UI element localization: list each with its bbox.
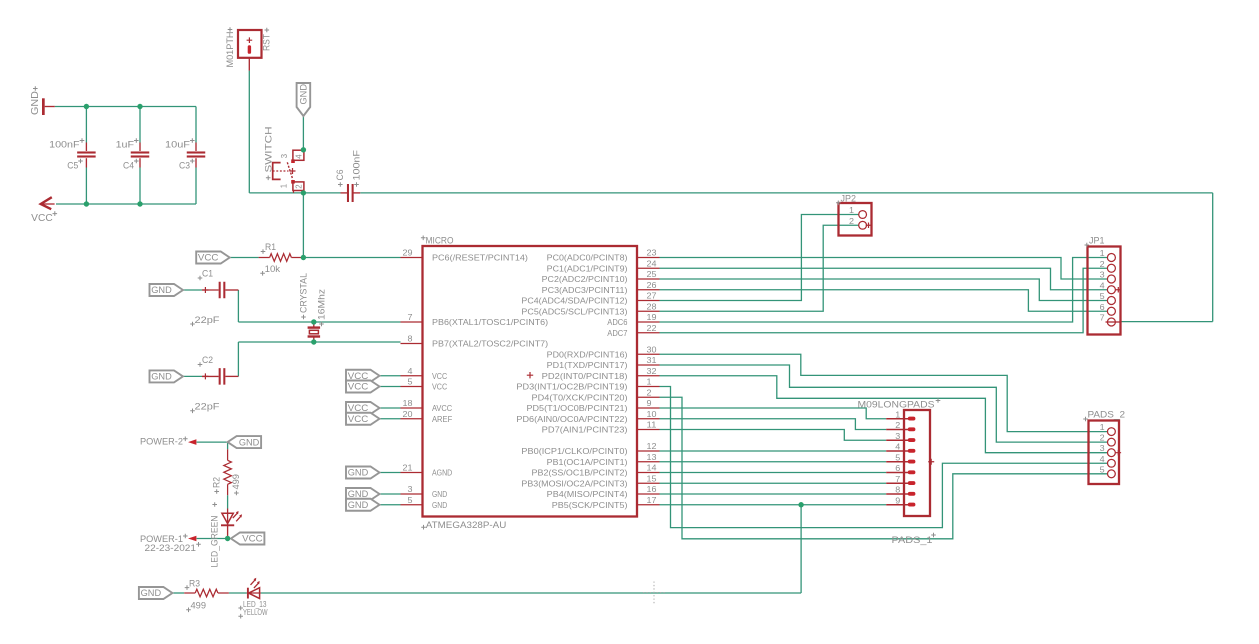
svg-text:VCC: VCC [31,213,53,224]
svg-text:GND: GND [432,489,447,499]
svg-text:4: 4 [1100,280,1105,290]
svg-text:30: 30 [647,344,657,354]
svg-text:PD2(INT0/PCINT18): PD2(INT0/PCINT18) [542,371,628,381]
svg-text:29: 29 [403,248,413,258]
svg-text:VCC: VCC [432,382,447,392]
svg-text:10: 10 [647,409,657,419]
svg-text:6: 6 [895,463,900,473]
svg-text:10k: 10k [265,264,281,274]
svg-text:16: 16 [647,484,657,494]
svg-text:PD6(AIN0/OC0A/PCINT22): PD6(AIN0/OC0A/PCINT22) [516,414,627,424]
svg-text:PB3(MOSI/OC2A/PCINT3): PB3(MOSI/OC2A/PCINT3) [521,478,627,488]
svg-text:PC2(ADC2/PCINT10): PC2(ADC2/PCINT10) [542,274,628,284]
svg-text:2: 2 [1100,433,1105,443]
svg-text:499: 499 [191,601,207,611]
svg-text:32: 32 [647,366,657,376]
svg-text:3: 3 [1100,270,1105,280]
svg-text:27: 27 [647,291,657,301]
svg-text:C3: C3 [179,161,190,171]
svg-text:19: 19 [647,312,657,322]
svg-text:GND: GND [348,500,369,511]
svg-text:PD0(RXD/PCINT16): PD0(RXD/PCINT16) [547,349,628,359]
svg-text:22-23-2021: 22-23-2021 [145,543,197,553]
svg-text:PB7(XTAL2/TOSC2/PCINT7): PB7(XTAL2/TOSC2/PCINT7) [432,339,548,349]
svg-text:13: 13 [647,452,657,462]
svg-text:8: 8 [408,334,413,344]
svg-text:MICRO: MICRO [426,235,454,245]
svg-text:R2: R2 [212,477,222,488]
svg-text:7: 7 [1100,313,1105,323]
svg-text:5: 5 [895,452,900,462]
svg-text:VCC: VCC [198,253,219,264]
svg-text:PB4(MISO/PCINT4): PB4(MISO/PCINT4) [547,489,628,499]
svg-text:PB0(ICP1/CLKO/PCINT0): PB0(ICP1/CLKO/PCINT0) [521,446,627,456]
svg-text:PB2(SS/OC1B/PCINT2): PB2(SS/OC1B/PCINT2) [532,468,628,478]
svg-text:499: 499 [231,474,241,490]
svg-text:PC6(/RESET/PCINT14): PC6(/RESET/PCINT14) [432,253,528,263]
svg-text:3: 3 [280,154,289,158]
svg-text:GND: GND [30,91,41,115]
svg-text:C1: C1 [202,269,213,279]
svg-text:GND: GND [432,500,447,510]
svg-text:VCC: VCC [432,371,447,381]
svg-text:PD3(INT1/OC2B/PCINT19): PD3(INT1/OC2B/PCINT19) [516,382,627,392]
svg-text:23: 23 [647,248,657,258]
svg-text:1uF: 1uF [116,140,135,150]
svg-text:PC5(ADC5/SCL/PCINT13): PC5(ADC5/SCL/PCINT13) [521,306,627,316]
svg-text:3: 3 [1100,443,1105,453]
svg-text:PD1(TXD/PCINT17): PD1(TXD/PCINT17) [547,360,628,370]
svg-text:C6: C6 [335,170,345,181]
svg-text:GND: GND [141,588,162,599]
svg-text:14: 14 [647,463,657,473]
svg-text:28: 28 [647,301,657,311]
svg-text:31: 31 [647,355,657,365]
svg-text:1: 1 [1100,422,1105,432]
svg-text:C4: C4 [123,161,134,171]
svg-text:9: 9 [647,398,652,408]
svg-text:2: 2 [849,216,854,226]
svg-text:2: 2 [294,184,303,188]
svg-text:YELLOW: YELLOW [243,608,268,617]
svg-text:5: 5 [1100,464,1105,474]
svg-text:GND: GND [239,437,260,448]
svg-text:7: 7 [408,312,413,322]
svg-text:1: 1 [895,409,900,419]
svg-text:C2: C2 [202,355,213,365]
svg-text:9: 9 [895,495,900,505]
svg-text:PD5(T1/OC0B/PCINT21): PD5(T1/OC0B/PCINT21) [527,403,628,413]
svg-text:ADC6: ADC6 [607,317,627,327]
svg-text:4: 4 [294,154,303,159]
svg-text:JP2: JP2 [841,193,857,203]
svg-text:7: 7 [895,474,900,484]
svg-text:1: 1 [1100,248,1105,258]
svg-text:8: 8 [895,485,900,495]
svg-text:PC0(ADC0/PCINT8): PC0(ADC0/PCINT8) [547,253,628,263]
svg-text:AVCC: AVCC [432,403,452,413]
svg-text:SWITCH: SWITCH [264,127,274,173]
svg-text:16Mhz: 16Mhz [316,288,326,320]
svg-text:15: 15 [647,473,657,483]
svg-text:5: 5 [1100,291,1105,301]
svg-text:PD7(AIN1/PCINT23): PD7(AIN1/PCINT23) [542,425,628,435]
svg-text:PADS_1: PADS_1 [892,535,933,546]
svg-text:GND: GND [299,84,310,105]
svg-text:AGND: AGND [432,468,452,478]
svg-text:4: 4 [408,366,413,376]
svg-text:22pF: 22pF [195,402,221,412]
svg-text:24: 24 [647,258,657,268]
svg-text:100nF: 100nF [49,140,80,150]
svg-text:PB1(OC1A/PCINT1): PB1(OC1A/PCINT1) [547,457,628,467]
svg-text:PB6(XTAL1/TOSC1/PCINT6): PB6(XTAL1/TOSC1/PCINT6) [432,317,548,327]
svg-text:22pF: 22pF [195,315,221,325]
svg-text:3: 3 [895,431,900,441]
svg-text:5: 5 [408,377,413,387]
svg-text:AREF: AREF [432,414,452,424]
svg-text:PADS_2: PADS_2 [1088,409,1126,420]
svg-text:CRYSTAL: CRYSTAL [298,273,308,313]
svg-text:PC1(ADC1/PCINT9): PC1(ADC1/PCINT9) [547,263,628,273]
svg-text:2: 2 [895,420,900,430]
svg-text:POWER-2: POWER-2 [140,437,183,447]
svg-text:1: 1 [849,205,854,215]
svg-text:100nF: 100nF [351,149,361,180]
svg-text:VCC: VCC [242,534,263,545]
svg-text:25: 25 [647,269,657,279]
svg-text:1: 1 [647,377,652,387]
svg-text:GND: GND [348,468,369,479]
svg-text:21: 21 [403,463,413,473]
svg-text:2: 2 [1100,259,1105,269]
svg-text:RST: RST [262,34,272,51]
svg-text:20: 20 [403,409,413,419]
svg-text:ATMEGA328P-AU: ATMEGA328P-AU [426,520,507,531]
svg-text:17: 17 [647,495,657,505]
svg-text:1: 1 [280,184,289,188]
svg-text:5: 5 [408,495,413,505]
svg-text:LED_GREEN: LED_GREEN [210,516,220,568]
svg-text:18: 18 [403,398,413,408]
svg-text:PB5(SCK/PCINT5): PB5(SCK/PCINT5) [552,500,628,510]
svg-text:4: 4 [895,442,900,452]
svg-text:6: 6 [1100,302,1105,312]
svg-text:PC4(ADC4/SDA/PCINT12): PC4(ADC4/SDA/PCINT12) [521,296,627,306]
svg-text:26: 26 [647,280,657,290]
svg-text:C5: C5 [67,161,78,171]
svg-text:GND: GND [151,372,172,383]
svg-text:22: 22 [647,323,657,333]
svg-text:R1: R1 [265,242,276,252]
svg-text:JP1: JP1 [1089,236,1105,246]
svg-text:PC3(ADC3/PCINT11): PC3(ADC3/PCINT11) [542,285,628,295]
svg-text:M01PTH: M01PTH [225,32,235,68]
svg-text:2: 2 [647,387,652,397]
svg-text:12: 12 [647,441,657,451]
svg-text:R3: R3 [189,578,200,588]
svg-text:ADC7: ADC7 [607,328,627,338]
svg-text:VCC: VCC [348,414,369,425]
svg-text:10uF: 10uF [165,140,191,150]
svg-text:VCC: VCC [348,382,369,393]
svg-text:3: 3 [408,484,413,494]
svg-text:4: 4 [1100,454,1105,464]
svg-text:11: 11 [647,420,657,430]
svg-text:PD4(T0/XCK/PCINT20): PD4(T0/XCK/PCINT20) [532,392,628,402]
svg-text:GND: GND [151,285,172,296]
